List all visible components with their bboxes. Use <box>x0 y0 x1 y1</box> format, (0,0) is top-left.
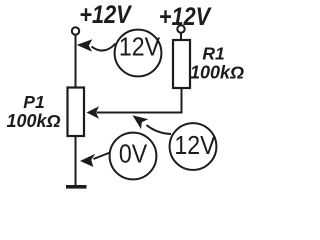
terminal P1 top <box>72 27 79 34</box>
wire P1 bottom <box>75 136 77 186</box>
svg-text:R1: R1 <box>202 44 224 64</box>
svg-text:12V: 12V <box>174 132 216 161</box>
svg-text:+12V: +12V <box>79 0 133 28</box>
annotation arrow 0V to P1 bottom wire <box>80 153 110 167</box>
annotation circle 12V top <box>115 30 162 77</box>
annotation arrow top 12V to P1 top wire <box>77 39 116 52</box>
svg-text:0V: 0V <box>119 140 148 169</box>
svg-text:100kΩ: 100kΩ <box>190 63 244 83</box>
terminal R1 top <box>177 25 184 32</box>
wire R1 bottom to P1 wiper <box>97 88 182 113</box>
wire P1 top <box>75 35 77 88</box>
wiper arrow P1 <box>87 106 100 119</box>
svg-text:+12V: +12V <box>159 2 213 30</box>
ground <box>66 185 87 189</box>
wire R1 top <box>180 33 182 41</box>
svg-text:100kΩ: 100kΩ <box>6 111 60 131</box>
annotation circle 12V wiper <box>170 123 217 170</box>
annotation arrow wiper 12V to wiper wire <box>133 115 172 134</box>
svg-text:P1: P1 <box>23 92 44 112</box>
resistor R1 body <box>173 40 190 88</box>
potentiometer P1 body <box>68 88 85 137</box>
annotation circle 0V <box>110 133 157 180</box>
svg-text:12V: 12V <box>119 33 161 62</box>
